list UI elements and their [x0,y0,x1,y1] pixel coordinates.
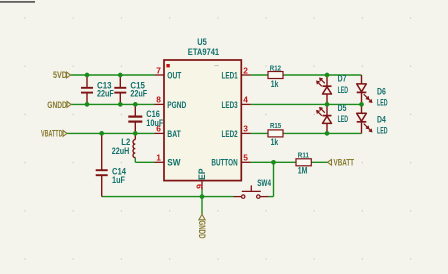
capacitor C13 labels [97,80,114,98]
svg-text:R12: R12 [270,64,281,73]
IC pin-1 marker square [166,64,169,67]
LED D7 [317,75,332,104]
wire R11 to VBATT [311,161,327,163]
wire bottom ground rail [102,196,234,198]
capacitor C15 [114,75,126,104]
wire VBATTD rail [67,132,155,134]
svg-text:D5: D5 [338,103,347,113]
capacitor C16 labels [146,109,163,128]
svg-text:1: 1 [156,153,161,163]
svg-text:BUTTON: BUTTON [211,158,237,168]
svg-text:LED: LED [377,126,388,136]
svg-text:R15: R15 [270,121,282,130]
junction BUTTON/SW4 [271,160,276,165]
LED D5 labels [338,103,349,124]
svg-text:22uF: 22uF [130,89,147,99]
svg-text:SW4: SW4 [257,178,271,188]
LED D4 labels [377,114,388,135]
svg-text:8: 8 [156,95,161,105]
svg-text:5: 5 [243,153,248,163]
wire GNDD rail [71,103,155,105]
junction GNDD/C16 [133,102,138,107]
svg-text:9: 9 [194,184,204,189]
svg-text:22uF: 22uF [97,89,114,99]
svg-text:1k: 1k [271,137,279,147]
label VBATTD [41,128,67,138]
capacitor C16 [128,104,142,133]
wire LED1 row [251,74,362,76]
svg-text:4: 4 [243,95,248,105]
svg-text:2: 2 [243,65,248,75]
capacitor C13 [81,75,93,104]
svg-text:D4: D4 [377,114,386,124]
pin 3 LED2 [222,124,251,139]
capacitor C15 labels [130,80,147,98]
switch SW4 [234,185,269,198]
wire 5VD rail [71,74,155,76]
junction LED2/D5 [325,131,330,136]
pin 1 SW [155,153,181,168]
pin 9 EP [194,169,207,190]
LED D6 labels [377,86,388,107]
inductor L2 labels [112,137,131,156]
resistor R15 labels [270,121,282,147]
label 5VD [53,70,71,80]
pin 7 OUT [155,65,182,80]
svg-text:1k: 1k [271,79,279,89]
svg-text:EP: EP [197,169,207,181]
svg-text:1uF: 1uF [112,175,125,185]
svg-text:22uH: 22uH [112,146,130,156]
junction LED1/D7 [325,73,330,78]
svg-text:LED: LED [377,98,388,108]
LED D7 labels [338,73,349,95]
junction 5VD/C13 [85,73,90,78]
svg-text:BAT: BAT [167,129,181,139]
junction VBATTD/L2 [133,131,138,136]
junction EP/ground [200,194,205,199]
pin 5 BUTTON [211,153,250,168]
label GNDD [47,100,71,110]
junction VBATTD/C14 [99,131,104,136]
capacitor C14 labels [112,167,127,186]
svg-text:3: 3 [243,124,248,134]
svg-text:7: 7 [156,65,161,75]
junction GNDD/C13 [85,102,90,107]
junction GNDD/C15 [118,102,123,107]
svg-text:LED1: LED1 [222,70,238,80]
svg-text:D7: D7 [338,73,347,83]
svg-text:U5: U5 [197,37,207,47]
label VBATT [328,157,355,167]
junction LED3/D7D5 [325,102,330,107]
inductor L2 [133,133,135,157]
IC U5 ETA9741 body [164,60,241,181]
resistor R12 labels [270,64,281,90]
LED D5 [317,104,332,133]
svg-text:ETA9741: ETA9741 [188,47,219,57]
junction LED3/D6D4 [359,102,364,107]
pin 2 LED1 [222,65,251,80]
svg-text:D6: D6 [377,86,386,96]
wire GNDD power stem [201,197,203,215]
svg-text:OUT: OUT [167,70,181,80]
faint dash inside IC [215,65,219,66]
svg-text:LED3: LED3 [222,100,238,110]
svg-text:1M: 1M [298,165,308,175]
svg-text:LED: LED [338,85,349,95]
svg-text:10uF: 10uF [146,118,163,128]
wire EP stub lower [201,190,203,197]
svg-text:PGND: PGND [167,100,186,110]
svg-text:LED: LED [338,114,349,124]
wire LED3 row [251,103,362,105]
pin 4 LED3 [222,95,251,110]
wire SW4 right riser [269,162,274,196]
resistor R11 labels [298,150,310,175]
svg-text:VBATT: VBATT [334,157,355,167]
svg-text:LED2: LED2 [222,129,238,139]
svg-text:R11: R11 [298,150,310,159]
power label GNDD bottom [197,214,207,238]
capacitor C14 [96,133,108,196]
LED D6 [357,75,372,104]
resistor R12 [268,72,283,79]
resistor R11 [296,159,311,166]
svg-text:GNDD: GNDD [197,221,207,239]
wire LED2 row [251,132,362,134]
svg-text:GNDD: GNDD [47,100,67,110]
svg-text:5VD: 5VD [53,70,67,80]
svg-text:VBATTD: VBATTD [41,128,63,138]
pin 8 PGND [155,95,187,110]
pin 6 BAT [155,124,182,139]
junction 5VD/C15 [118,73,123,78]
wire L2 to SW [135,158,154,163]
wire BUTTON row [251,161,296,163]
resistor R15 [268,130,283,137]
svg-text:SW: SW [167,158,180,168]
LED D4 [357,104,372,133]
